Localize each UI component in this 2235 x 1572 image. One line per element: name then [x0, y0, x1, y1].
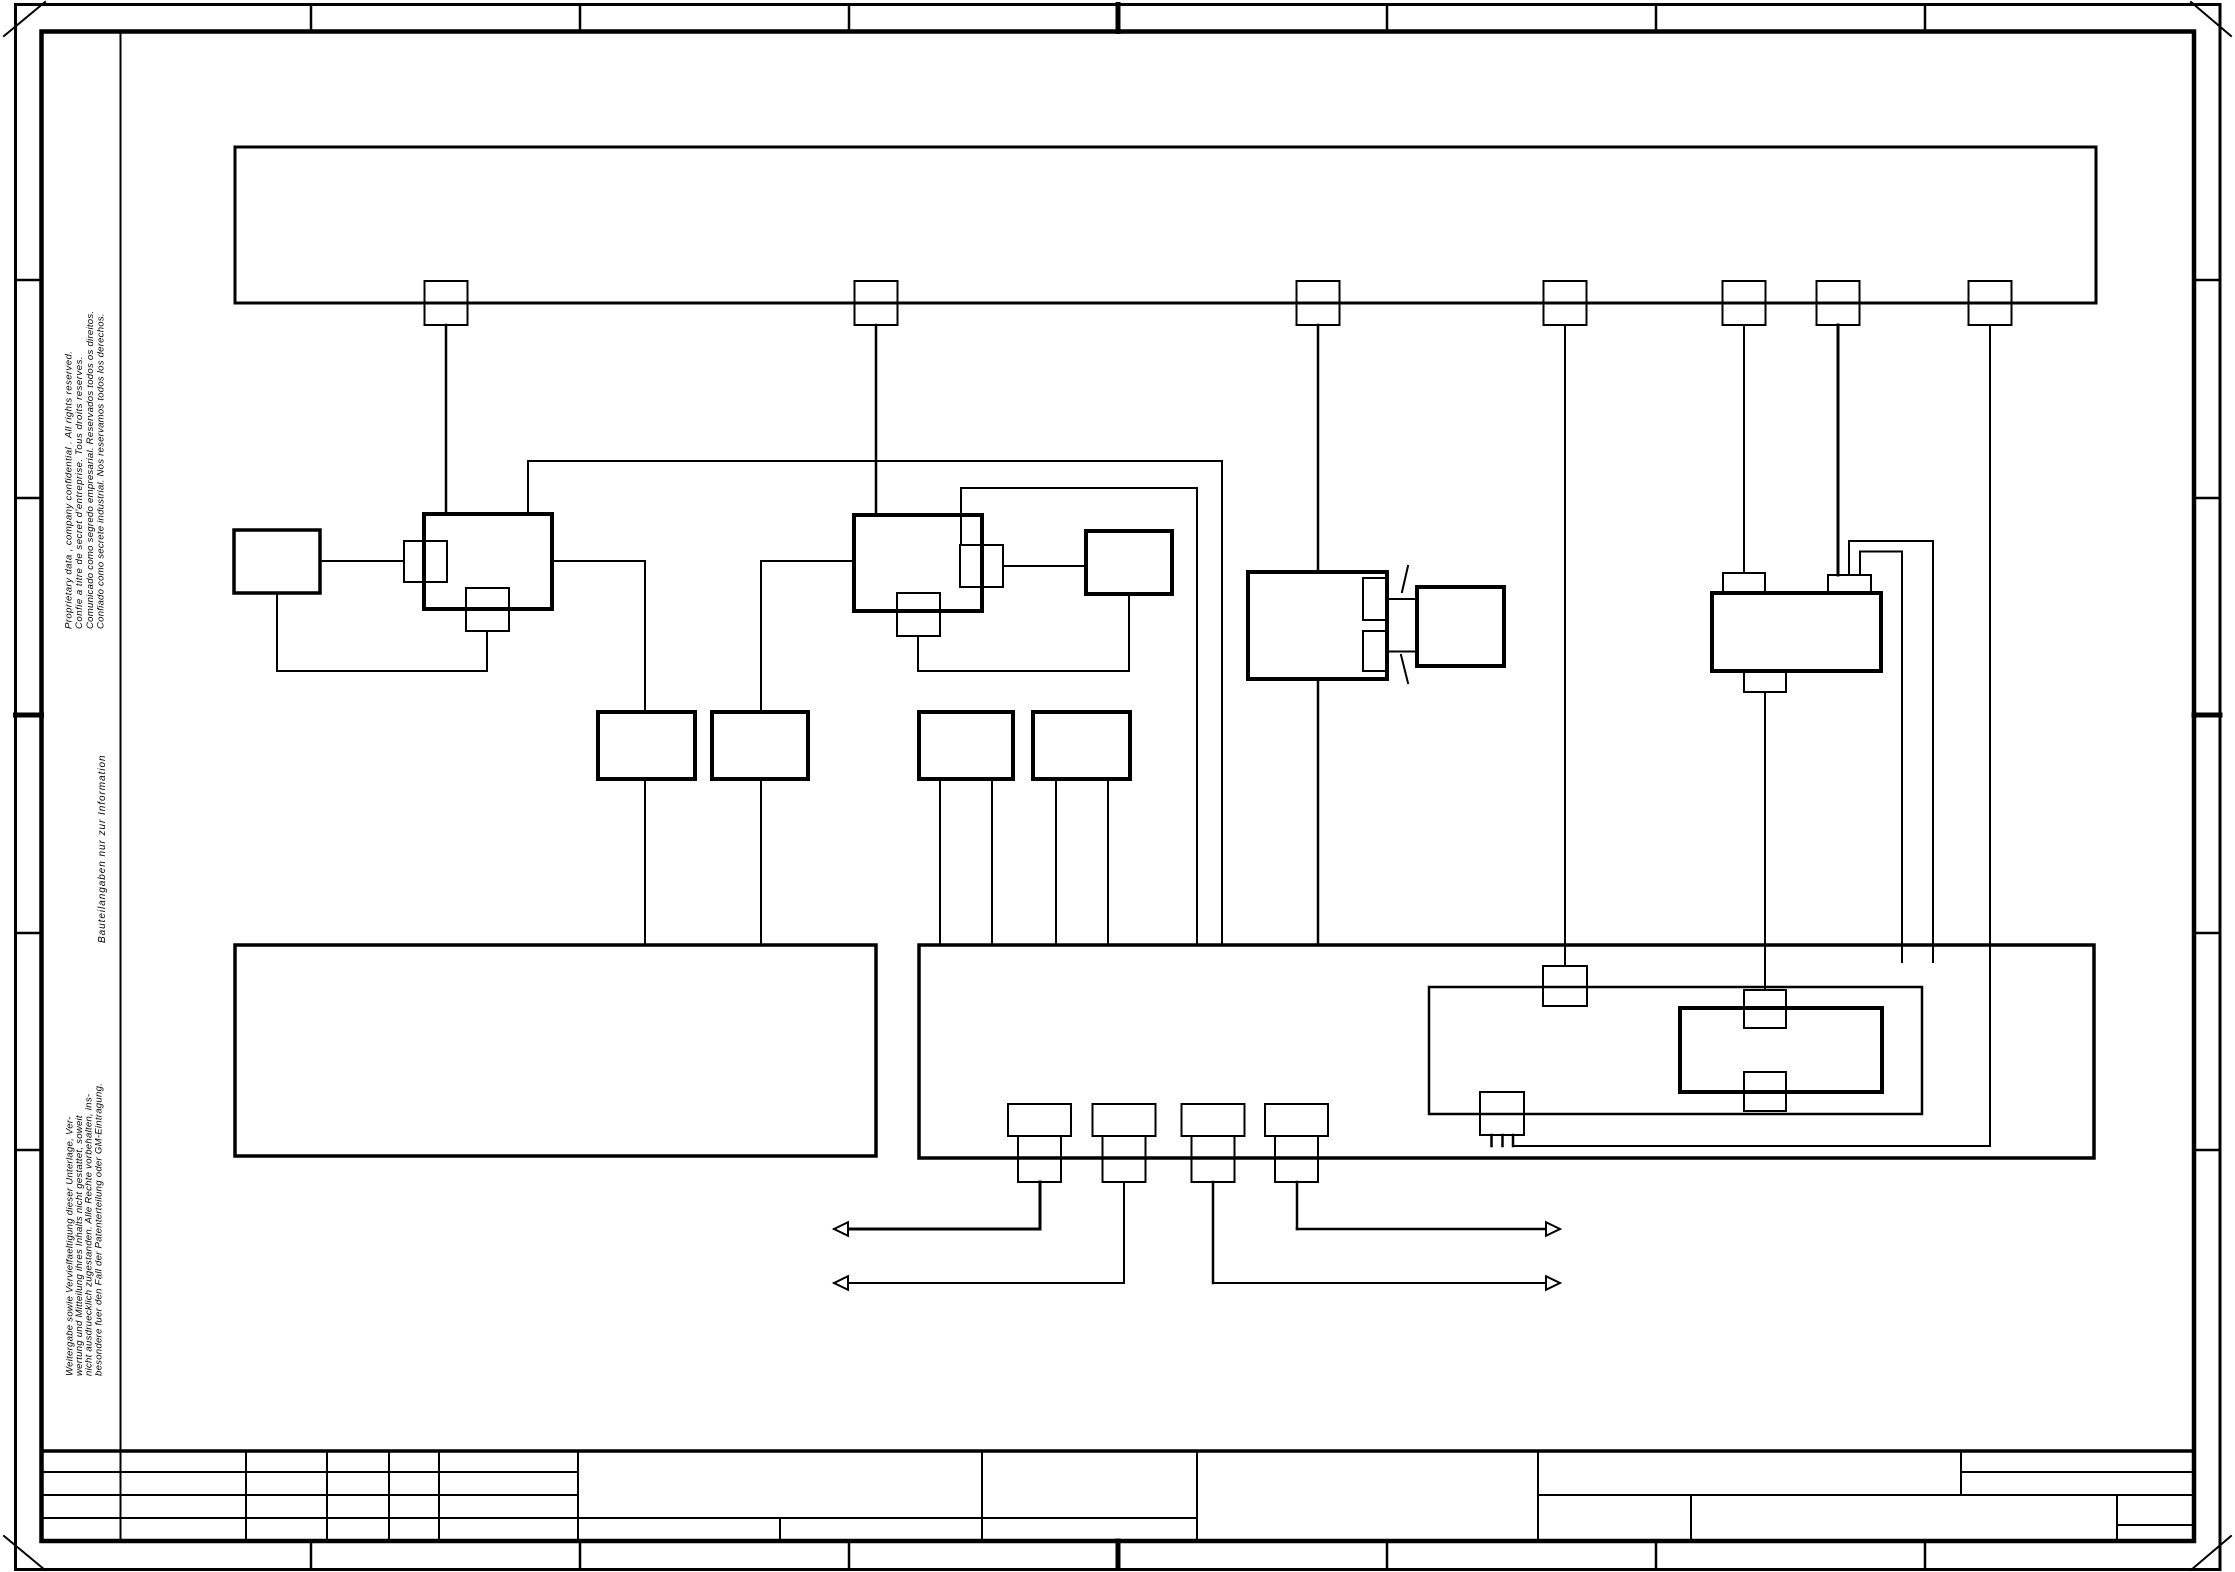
svg-text:Bauteilangaben nur zur Informa: Bauteilangaben nur zur Information: [97, 754, 108, 943]
svg-text:besondere fuer den Fall der Pa: besondere fuer den Fall der Patenterteil…: [93, 1083, 104, 1376]
svg-text:Confie a titre de secret: Confie a titre de secret d'entreprise. T…: [74, 356, 85, 629]
svg-text:Proprietary data , company: Proprietary data , company confidential …: [64, 351, 75, 629]
svg-text:Confiado como secrete industri: Confiado como secrete industrial. Nos re…: [96, 313, 107, 629]
svg-text:Comunicado como segredo empre: Comunicado como segredo empresarial. Res…: [85, 311, 96, 629]
